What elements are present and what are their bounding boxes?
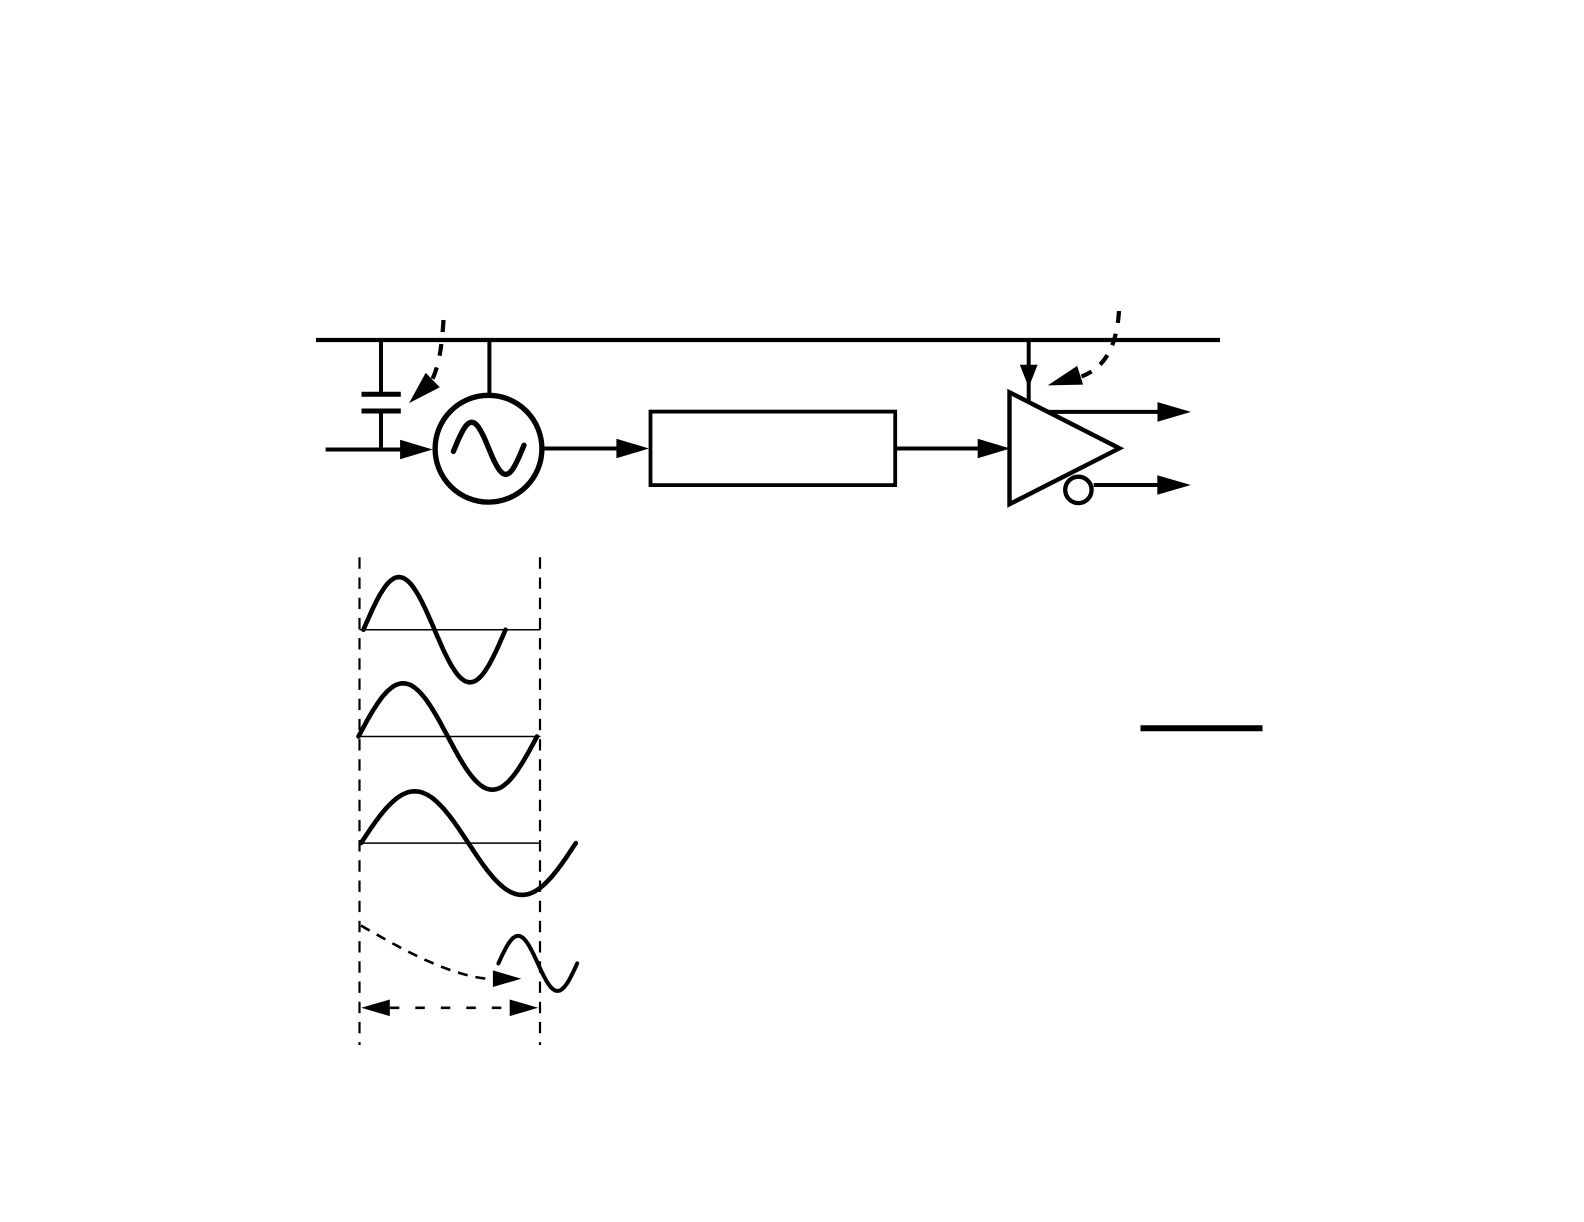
- wire: block output to buffer with arrowhead: [895, 439, 1010, 459]
- oscillator (sine-wave source): [435, 395, 542, 502]
- dashed drift trajectory with arrowhead: [361, 926, 521, 987]
- period measurement double-headed dashed arrow: [361, 1000, 538, 1017]
- wire: oscillator output to delay block with arrowhead: [544, 439, 649, 459]
- small displaced sine at drift arrival: [498, 936, 577, 991]
- wire: power supply rail: [316, 338, 1220, 342]
- wire: rail down to oscillator supply pin: [487, 340, 491, 397]
- waveform cycle 1 baseline: [360, 629, 541, 631]
- wire: buffer complementary output with arrowhead: [1094, 475, 1191, 495]
- waveform cycle 1 sine: [364, 577, 506, 682]
- waveform cycle 3 sine (period stretched more): [361, 791, 576, 895]
- dashed noise-injection arrow into oscillator supply: [409, 320, 443, 403]
- wire: input line into oscillator with arrowhead: [326, 440, 433, 460]
- waveform cycle 2 baseline: [360, 736, 541, 738]
- waveform cycle 3 baseline: [360, 842, 541, 844]
- wire: buffer true output with arrowhead: [1048, 402, 1191, 422]
- wire: rail down to buffer supply with arrowhead: [1020, 340, 1038, 406]
- capacitor (supply bypass cap): [362, 338, 401, 449]
- buffer / output driver (triangle): [1010, 392, 1120, 504]
- block: delay element rectangle: [651, 412, 896, 486]
- waveform cycle 2 sine (period stretched): [359, 683, 538, 789]
- dashed noise-injection arrow into buffer supply: [1048, 311, 1119, 385]
- overbar label mark: [1141, 725, 1263, 731]
- node: nominal period end (right dashed timing line): [539, 557, 541, 1045]
- inversion bubble on complementary output: [1065, 477, 1091, 503]
- node: period start (left dashed timing line): [358, 557, 360, 1045]
